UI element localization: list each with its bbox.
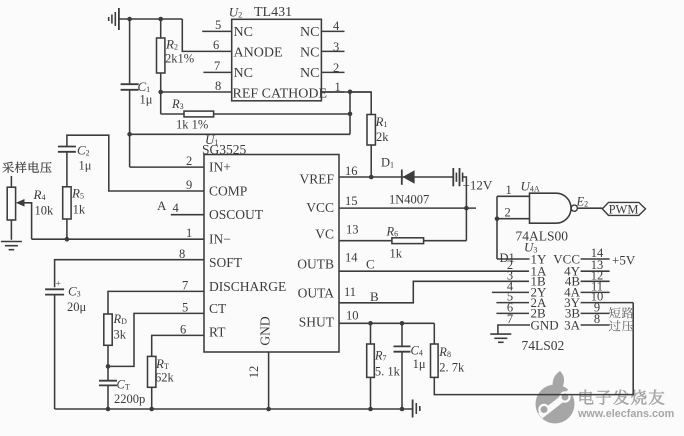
svg-text:8: 8 xyxy=(179,247,185,261)
svg-text:OUTA: OUTA xyxy=(298,286,335,301)
svg-text:D1: D1 xyxy=(500,251,515,265)
svg-text:+: + xyxy=(56,280,61,290)
svg-text:SOFT: SOFT xyxy=(209,255,243,270)
svg-text:20μ: 20μ xyxy=(67,300,87,314)
svg-text:VREF: VREF xyxy=(299,172,334,187)
svg-text:4: 4 xyxy=(173,201,180,215)
svg-text:www.elecfans.com: www.elecfans.com xyxy=(577,408,674,420)
svg-text:10k: 10k xyxy=(35,204,55,218)
svg-text:13: 13 xyxy=(346,223,359,237)
svg-text:1: 1 xyxy=(335,80,341,94)
svg-text:3: 3 xyxy=(333,40,339,54)
svg-text:10: 10 xyxy=(346,309,359,323)
svg-text:11: 11 xyxy=(344,285,356,299)
svg-text:3A: 3A xyxy=(564,317,581,332)
svg-text:NC: NC xyxy=(234,66,253,81)
svg-text:1k: 1k xyxy=(73,203,86,217)
svg-text:1N4007: 1N4007 xyxy=(389,193,429,207)
svg-text:15: 15 xyxy=(345,194,358,208)
svg-text:1: 1 xyxy=(186,226,192,240)
svg-text:NC: NC xyxy=(300,66,319,81)
svg-text:74LS02: 74LS02 xyxy=(522,338,565,353)
svg-text:IN+: IN+ xyxy=(209,160,231,175)
svg-text:NC: NC xyxy=(300,25,319,40)
svg-text:GND: GND xyxy=(258,316,273,345)
svg-text:1μ: 1μ xyxy=(413,357,426,371)
svg-text:1μ: 1μ xyxy=(79,159,92,173)
svg-text:2k1%: 2k1% xyxy=(165,52,194,66)
svg-text:62k: 62k xyxy=(155,371,175,385)
svg-text:DISCHARGE: DISCHARGE xyxy=(209,279,286,294)
svg-text:ANODE: ANODE xyxy=(234,46,283,61)
svg-text:3k: 3k xyxy=(114,328,127,342)
svg-text:NC: NC xyxy=(300,46,319,61)
svg-text:2: 2 xyxy=(333,61,339,75)
svg-text:7: 7 xyxy=(214,59,220,73)
svg-text:5: 5 xyxy=(182,301,188,315)
svg-text:+5V: +5V xyxy=(612,253,636,268)
svg-text:2: 2 xyxy=(505,206,511,220)
svg-text:6: 6 xyxy=(213,38,219,52)
svg-text:6: 6 xyxy=(180,323,186,337)
svg-text:16: 16 xyxy=(345,164,358,178)
svg-text:12: 12 xyxy=(247,366,261,379)
svg-text:REF CATHODE: REF CATHODE xyxy=(233,87,328,102)
svg-text:TL431: TL431 xyxy=(254,5,292,20)
svg-text:9: 9 xyxy=(186,178,192,192)
svg-text:+12V: +12V xyxy=(463,178,493,193)
svg-text:1μ: 1μ xyxy=(140,93,153,107)
svg-text:1k: 1k xyxy=(390,247,403,261)
svg-text:2200p: 2200p xyxy=(114,392,145,406)
svg-text:5. 1k: 5. 1k xyxy=(375,365,401,379)
svg-text:PWM: PWM xyxy=(609,202,639,216)
svg-text:COMP: COMP xyxy=(209,184,247,199)
svg-text:2. 7k: 2. 7k xyxy=(439,361,465,375)
svg-text:5: 5 xyxy=(215,18,221,32)
svg-text:RT: RT xyxy=(209,325,226,340)
svg-text:GND: GND xyxy=(531,317,559,332)
svg-text:SHUT: SHUT xyxy=(299,314,335,329)
svg-text:2: 2 xyxy=(186,154,192,168)
svg-text:8: 8 xyxy=(215,79,221,93)
svg-text:IN−: IN− xyxy=(209,232,231,247)
svg-text:1k 1%: 1k 1% xyxy=(176,118,208,132)
svg-text:A: A xyxy=(157,198,167,213)
svg-text:VCC: VCC xyxy=(306,200,334,215)
svg-text:2k: 2k xyxy=(376,130,389,144)
svg-text:1: 1 xyxy=(506,183,512,197)
svg-text:B: B xyxy=(370,289,379,304)
svg-text:NC: NC xyxy=(234,25,253,40)
svg-text:7: 7 xyxy=(507,312,513,326)
svg-text:VC: VC xyxy=(315,227,334,242)
svg-text:4: 4 xyxy=(333,19,340,33)
svg-text:7: 7 xyxy=(182,279,188,293)
svg-text:OSCOUT: OSCOUT xyxy=(209,207,264,222)
svg-text:14: 14 xyxy=(345,251,358,265)
svg-text:OUTB: OUTB xyxy=(297,257,334,272)
svg-text:SG3525: SG3525 xyxy=(202,142,247,157)
svg-text:C: C xyxy=(366,257,375,272)
svg-text:8: 8 xyxy=(594,312,600,326)
svg-text:CT: CT xyxy=(209,301,227,316)
